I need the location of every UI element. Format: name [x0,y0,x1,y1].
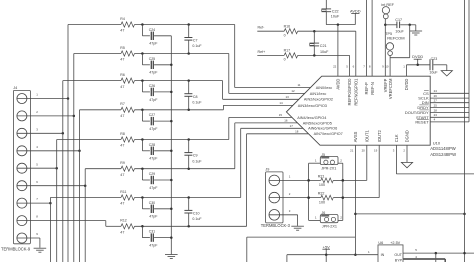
wire R9 row to AIN5 [234,123,236,169]
capacitor C22 10uF [322,0,340,25]
wire R7 row to AIN3 [222,105,224,109]
svg-text:10uF: 10uF [331,15,340,19]
svg-text:C26: C26 [149,84,155,88]
wire +5V rail [287,253,378,262]
svg-text:20: 20 [362,149,366,153]
svg-text:Ref-: Ref- [258,26,266,30]
wire J4 pin 5 [17,167,58,170]
capacitor C23 10uF [429,57,438,75]
svg-text:0.1uF: 0.1uF [192,159,202,163]
wire J9 pin 2 to R22 [269,196,321,199]
svg-text:IOUT2: IOUT2 [377,130,382,143]
resistor R16 0 [284,25,298,38]
svg-text:C10: C10 [193,212,200,216]
wire row R11 [50,196,240,199]
svg-text:47pF: 47pF [149,71,158,75]
svg-text:C9: C9 [193,154,198,158]
svg-text:47pF: 47pF [149,244,158,248]
svg-text:25: 25 [434,103,438,107]
svg-text:47pF: 47pF [149,215,158,219]
capacitor C27 47pF [142,110,171,131]
svg-text:11: 11 [297,83,300,87]
wire R22 right [333,196,344,199]
svg-text:C7: C7 [193,39,198,43]
wire Ref+ to REFP0 [257,54,349,76]
svg-text:C25: C25 [149,57,155,61]
svg-text:17: 17 [290,124,294,128]
svg-text:C24: C24 [149,28,155,32]
svg-text:R5: R5 [120,46,125,50]
svg-text:21: 21 [350,149,354,153]
wire bus vertical from J4 pin 8 to R12 row [105,221,107,227]
wire pin DRDY [430,107,469,109]
svg-text:R21: R21 [318,174,325,178]
wire IOUT2 [343,145,379,197]
wire bus vertical from J4 pin 6 to resistor row [84,169,86,262]
wire J5 left [307,163,320,220]
pin label REFP0/GPIO0 [346,65,352,106]
resistor R6 47 [120,73,134,89]
svg-text:REF-N: REF-N [370,82,375,95]
ground at C23 (triangle) [441,71,452,76]
ground at J4 pin 9 [34,238,47,252]
svg-text:15: 15 [279,113,283,117]
pin label AIN1 [291,89,326,96]
wire pin AIN1 [229,92,305,94]
svg-text:47pF: 47pF [149,127,158,131]
pin label REF-N [369,65,375,95]
wire pin RESET [430,121,469,123]
svg-text:ADS1248IPW: ADS1248IPW [430,152,456,157]
svg-text:IOUT1: IOUT1 [365,130,370,143]
svg-text:0.1uF: 0.1uF [192,217,202,221]
svg-text:C23: C23 [431,57,438,61]
capacitor C31 47pF [142,226,171,247]
wire J4 pin 4 [17,150,81,153]
svg-text:16: 16 [284,118,288,122]
svg-text:R22: R22 [318,192,325,196]
wire R5 row to AIN1 [228,54,230,94]
svg-text:47: 47 [120,202,124,206]
svg-text:C22: C22 [332,10,339,14]
pin label AIN2 [285,95,333,102]
svg-text:J4: J4 [13,86,17,90]
wire REFCOM loop to VREFCOM pin 10 [390,25,410,76]
ground at J9 pin 3 [291,226,304,230]
wire J4 pin 1 [17,97,69,100]
wire bus vertical from J4 pin 5 to resistor row [56,140,58,262]
pin label REF-P [363,65,369,95]
wire pin AIN4 [229,116,292,118]
wire J6 left [309,219,321,221]
svg-text:R7: R7 [120,102,125,106]
wire J9 pin 3 to ground [269,215,298,226]
svg-text:0.1uF: 0.1uF [192,44,202,48]
wire row R4 [68,23,235,26]
pin label VREFCOM [385,65,393,100]
svg-text:AIN6/Iexc/GPIO6: AIN6/Iexc/GPIO6 [308,127,337,131]
svg-text:AVDD: AVDD [336,79,341,90]
wire R4 row to AIN0 [234,25,236,88]
wire right bus B [468,0,470,122]
svg-text:TERMBLOCK-9: TERMBLOCK-9 [1,247,31,252]
wire CLK [396,145,474,174]
capacitor C30 47pF [142,198,171,219]
pin label CS [423,89,437,96]
svg-text:23: 23 [434,113,438,117]
wire IOUT1 [343,145,367,180]
svg-text:47pF: 47pF [149,98,158,102]
wire J4 pin 6 [17,184,86,187]
wire bus vertical from J4 pin 7 to resistor row [49,198,51,262]
capacitor C8 0.1uF [184,81,202,110]
svg-text:28: 28 [434,108,438,112]
pin label AVDD [333,65,341,90]
svg-text:AIN4/Iexc/GPIO4: AIN4/Iexc/GPIO4 [297,116,326,120]
svg-text:18: 18 [295,129,299,133]
svg-text:47: 47 [120,144,124,148]
svg-text:+5V: +5V [323,244,330,249]
capacitor C25 47pF [142,54,171,75]
svg-text:R4: R4 [120,17,125,21]
resistor R11 47 [120,190,134,206]
svg-text:0.1uF: 0.1uF [192,100,202,104]
pin label AIN3 [279,101,327,108]
pin label AIN7 [295,129,343,136]
svg-text:27: 27 [434,99,438,103]
resistor R17 0 [284,49,298,62]
svg-text:26: 26 [434,94,438,98]
svg-text:100: 100 [319,200,325,204]
pin label REFN0/GPIO1 [353,65,359,106]
wire C23 to ground [433,65,446,71]
pin label AIN6 [290,124,338,131]
svg-text:47: 47 [120,29,124,33]
capacitor C21 10uF [310,31,330,55]
wire row R5 [74,52,229,55]
svg-text:47pF: 47pF [149,186,158,190]
svg-text:47: 47 [120,173,124,177]
wire row R8 [57,138,229,141]
resistor R8 47 [120,132,134,148]
pin label DRDY [417,103,437,110]
wire R11 row to AIN6 [240,128,242,197]
capacitor C29 47pF [142,169,171,190]
pin label RESET [415,118,435,125]
svg-text:J6: J6 [322,211,326,215]
svg-text:C17: C17 [395,18,402,22]
svg-text:AIN3/Iexc/GPIO3: AIN3/Iexc/GPIO3 [298,104,327,108]
svg-text:47pF: 47pF [149,157,158,161]
wire right bus A [464,0,466,262]
wire external REF1P [366,0,368,76]
connector J9 TERMBLOCK-3 [261,168,291,229]
wire pin DIN [430,102,469,104]
capacitor C24 47pF [142,25,171,46]
wire pin AIN3 [223,104,292,106]
resistor R12 47 [120,219,134,235]
resistor R4 47 [120,17,134,33]
wire R21 right [333,179,344,182]
svg-text:0: 0 [284,34,286,38]
capacitor C7 0.1uF [184,25,202,54]
wire external REF1N [371,0,373,76]
pin label CLK [393,134,399,153]
wire J4 pin 9 [17,237,40,239]
svg-text:10uF: 10uF [429,71,438,75]
pin label DVDD [403,65,409,91]
pin label START [416,113,437,120]
svg-text:AIN7/Iexc/GPIO7: AIN7/Iexc/GPIO7 [314,132,343,136]
svg-text:AIN0/Iexc: AIN0/Iexc [316,86,333,90]
svg-text:U10: U10 [433,140,441,145]
wire C22 to AVDD pin [326,23,355,76]
net label Ref+ [258,50,266,54]
ground DGND (triangle) [401,162,412,167]
resistor R7 47 [120,102,134,118]
wire J9 pin 1 to R21 [269,179,321,182]
svg-text:C21: C21 [320,44,327,48]
pin label IOUT1 [362,130,370,153]
power +5V [322,244,330,254]
wire J4 pin 7 [17,202,52,205]
svg-text:AIN1/Iexc: AIN1/Iexc [310,92,327,96]
svg-text:C28: C28 [149,143,155,147]
pin label AIN5 [284,118,332,125]
test point int REF [381,3,394,19]
ground at capacitor rail [165,255,178,259]
test point TP5 REFCOM [385,32,404,55]
svg-text:47: 47 [120,231,124,235]
pin label AVSS [350,131,358,152]
svg-text:19: 19 [374,149,378,153]
wire pin AIN0 [235,87,311,89]
svg-text:int REF: int REF [381,3,394,7]
pin label IOUT2 [374,130,382,153]
wire row R9 [85,167,235,170]
svg-text:AVSS: AVSS [353,131,358,142]
wire R8 row to AIN4 [228,117,230,139]
svg-text:10: 10 [385,65,389,69]
svg-text:R6: R6 [120,73,125,77]
wire AVSS [247,145,466,262]
svg-text:BYP: BYP [395,259,403,262]
wire DGND pin to ground [406,145,408,162]
pin label AIN0 [297,83,332,90]
svg-text:R16: R16 [284,25,290,29]
wire pin AIN2 [223,98,299,100]
wire bus vertical from J4 pin 3 to resistor row [62,81,64,262]
wire pin START [430,116,469,118]
wire DVDD to pin 1 and C23 [407,64,430,77]
wire pin DOUT/DRDY [430,112,469,114]
svg-text:C31: C31 [149,230,155,234]
wire U6 OUT +2.5V [403,252,474,262]
wire Ref- to REFN0 [257,30,356,76]
svg-text:J9: J9 [265,168,269,172]
op-amp U10 ADS1148IPW outline [286,76,456,157]
svg-text:Ref+: Ref+ [258,50,266,54]
svg-text:47: 47 [120,85,124,89]
svg-text:TERMBLOCK-3: TERMBLOCK-3 [261,223,291,228]
svg-text:IN: IN [381,253,385,257]
svg-text:47: 47 [120,114,124,118]
wire J5 right [338,163,344,220]
svg-text:+2.5V: +2.5V [390,241,400,245]
svg-text:DGND: DGND [405,130,410,142]
svg-text:OUT: OUT [394,253,402,257]
svg-text:13: 13 [285,95,289,99]
jumper J5 JPR-2X1 [315,153,342,170]
svg-text:R12: R12 [120,219,126,223]
capacitor C26 47pF [142,81,171,102]
resistor R5 47 [120,46,134,62]
svg-text:JPR-2X1: JPR-2X1 [321,166,336,170]
svg-text:22: 22 [333,65,337,69]
svg-text:C27: C27 [149,113,155,117]
wire U6 BYP [403,259,445,262]
connector J4 TERMBLOCK-9 [1,86,38,251]
resistor R22 100 [318,192,334,205]
svg-text:REFCOM: REFCOM [387,35,404,40]
wire J4 pin 2 [17,115,75,118]
svg-text:14: 14 [279,101,283,105]
svg-text:DVDD: DVDD [404,79,409,91]
wire capacitor common rail [170,36,173,255]
power DVDD [412,54,423,65]
wire int REF to VREFOUT pin 9 [384,19,387,76]
resistor R9 47 [120,161,134,177]
svg-text:100: 100 [319,183,325,187]
svg-text:JPR-2X1: JPR-2X1 [322,224,337,228]
svg-text:10uF: 10uF [395,29,404,33]
svg-text:REFN0/GPIO1: REFN0/GPIO1 [354,78,359,106]
capacitor C28 47pF [142,140,171,161]
wire pin AIN6 [241,127,303,129]
svg-text:REF-P: REF-P [364,82,369,95]
capacitor C17 10uF [385,18,416,34]
power AVDD [350,8,361,24]
wire row R7 [80,109,224,112]
svg-text:R9: R9 [120,161,125,165]
net label Ref- [258,26,266,30]
svg-text:C29: C29 [149,172,155,176]
wire pin CS [430,92,469,94]
resistor R21 100 [318,174,334,187]
svg-text:AIN2/Iexc/GPIO2: AIN2/Iexc/GPIO2 [304,98,333,102]
regulator U6 +2.5V [368,241,417,262]
wire row R12 [106,225,247,228]
wire bus vertical from J4 pin 2 to resistor row [73,54,75,262]
wire pin AIN7 [247,133,309,135]
svg-text:ADS1148IPW: ADS1148IPW [430,146,456,151]
jumper J6 JPR-2X1 [315,211,342,229]
svg-text:R11: R11 [120,190,126,194]
wire J4 pin 3 [17,132,64,135]
pin label DOUT/DRDY [405,108,437,115]
ground at C17 [410,25,423,35]
pin label DGND [403,130,409,152]
wire pin AIN5 [235,122,298,124]
svg-text:AVDD: AVDD [350,8,361,13]
svg-text:0: 0 [284,58,286,62]
svg-text:U6: U6 [378,241,383,245]
svg-text:AIN5/Iexc/GPIO5: AIN5/Iexc/GPIO5 [303,121,332,125]
svg-text:10uF: 10uF [320,50,329,54]
pin label DIN [422,99,437,106]
pin label SCLK [418,94,437,101]
svg-text:RESET: RESET [415,119,429,124]
pin label AIN4 [279,113,327,120]
wire R6 row to AIN2 [222,81,224,100]
wire R12 row to AIN7 [246,134,248,227]
svg-text:47pF: 47pF [149,42,158,46]
svg-text:DVDD: DVDD [412,54,423,59]
pin label VREFP [382,65,388,93]
svg-text:J5: J5 [321,153,325,157]
wire bus vertical from J4 pin 4 to resistor row [79,110,81,262]
svg-text:VREFCOM: VREFCOM [388,78,393,99]
wire J4 pin 8 [17,220,106,222]
wire bus vertical from J4 pin 1 to resistor row [67,25,69,262]
svg-text:R17: R17 [284,49,290,53]
wire J6 right [338,219,343,221]
svg-text:C30: C30 [149,201,155,205]
svg-text:REFP0/GPIO0: REFP0/GPIO0 [347,78,352,106]
capacitor C10 0.1uF [184,198,202,227]
svg-text:24: 24 [434,89,438,93]
wire pin SCLK [430,97,469,99]
capacitor C9 0.1uF [184,140,202,169]
wire row R6 [63,79,223,82]
svg-text:12: 12 [291,89,295,93]
svg-text:CLK: CLK [394,134,399,142]
svg-text:47: 47 [120,58,124,62]
svg-text:R8: R8 [120,132,125,136]
svg-text:C8: C8 [193,95,198,99]
